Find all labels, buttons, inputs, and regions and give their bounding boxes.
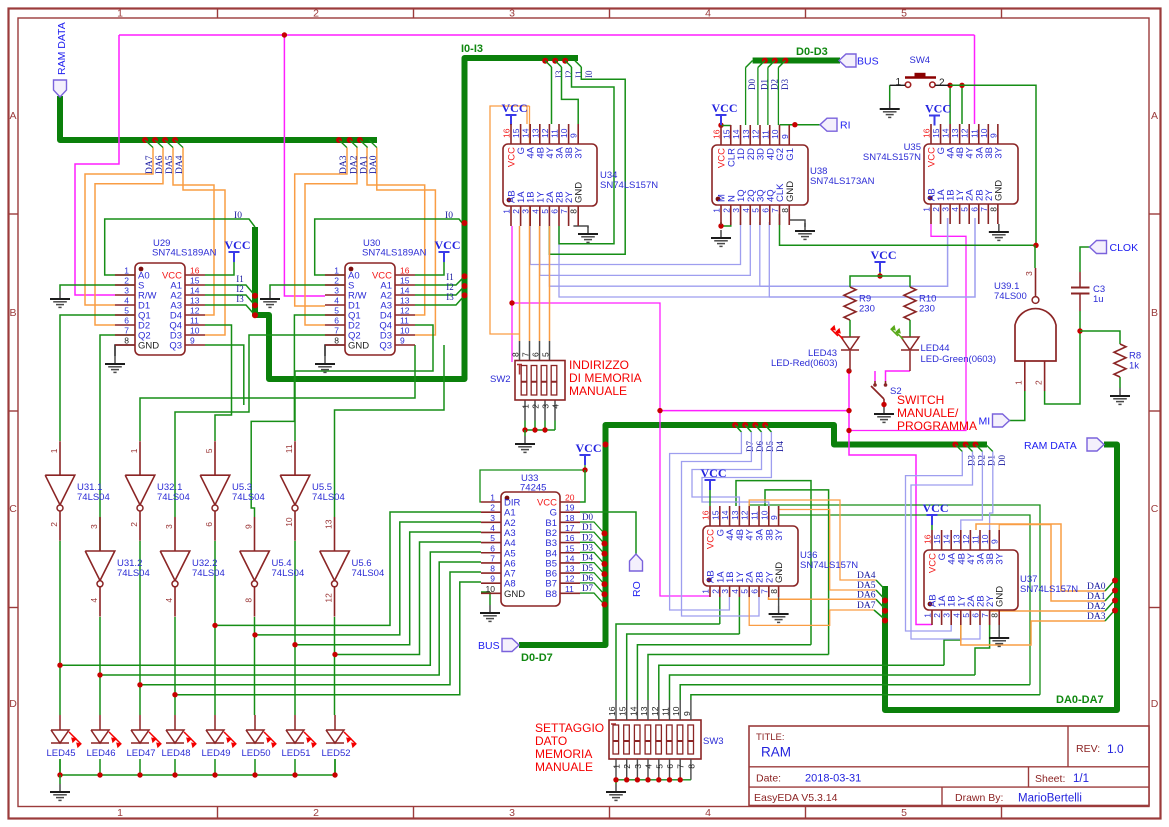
svg-text:13: 13 <box>324 519 334 529</box>
svg-text:13: 13 <box>400 296 410 306</box>
svg-text:12: 12 <box>961 534 971 544</box>
svg-text:LED44: LED44 <box>921 343 950 354</box>
wire U33 B outputs to bus D0-D7 <box>580 442 609 608</box>
svg-text:GND: GND <box>993 180 1004 201</box>
wire orange SW2 columns <box>520 226 550 361</box>
svg-text:DATO: DATO <box>535 734 567 748</box>
svg-text:2: 2 <box>313 8 319 20</box>
svg-text:12: 12 <box>400 306 410 316</box>
svg-text:I2: I2 <box>446 282 454 292</box>
svg-text:5: 5 <box>740 589 750 594</box>
svg-text:6: 6 <box>971 613 981 618</box>
svg-text:LED48: LED48 <box>161 748 190 759</box>
pushbutton SW4 <box>890 55 950 89</box>
svg-text:MarioBertelli: MarioBertelli <box>1018 793 1082 805</box>
svg-text:MANUALE: MANUALE <box>535 760 593 774</box>
wire green D0-D3 taps to U38 <box>746 58 790 126</box>
svg-text:C: C <box>1151 503 1159 515</box>
svg-text:10: 10 <box>980 534 990 544</box>
svg-text:5: 5 <box>541 352 551 357</box>
svg-text:10: 10 <box>400 326 410 336</box>
svg-text:I3: I3 <box>554 70 564 78</box>
svg-text:D1: D1 <box>582 522 593 532</box>
svg-text:16: 16 <box>400 266 410 276</box>
svg-text:3Y: 3Y <box>995 552 1006 564</box>
svg-text:GND: GND <box>774 562 785 583</box>
net flag BUS lower <box>502 639 519 652</box>
svg-text:5: 5 <box>490 533 495 543</box>
svg-text:7: 7 <box>759 589 769 594</box>
svg-text:12: 12 <box>650 706 660 716</box>
svg-text:14: 14 <box>521 128 531 138</box>
LED LED49 <box>201 730 236 759</box>
svg-text:2: 2 <box>49 522 59 527</box>
switch S2 <box>871 381 902 407</box>
svg-text:3Y: 3Y <box>774 528 785 540</box>
svg-text:4: 4 <box>951 613 961 618</box>
svg-text:A: A <box>9 110 16 122</box>
LED LED46 <box>86 730 121 759</box>
svg-text:3: 3 <box>509 807 515 819</box>
svg-text:LED50: LED50 <box>241 748 270 759</box>
svg-text:DA7: DA7 <box>857 601 876 611</box>
svg-text:9: 9 <box>400 336 405 346</box>
svg-text:8: 8 <box>511 352 521 357</box>
svg-text:10: 10 <box>770 129 780 139</box>
svg-text:74LS04: 74LS04 <box>272 568 305 579</box>
inverter U5.5 74LS04 <box>280 441 345 541</box>
svg-text:D0: D0 <box>582 512 593 522</box>
svg-text:GND: GND <box>995 586 1006 607</box>
svg-text:16: 16 <box>712 129 722 139</box>
svg-text:VCC: VCC <box>435 238 461 252</box>
svg-text:4: 4 <box>730 589 740 594</box>
svg-text:74LS04: 74LS04 <box>312 492 345 503</box>
ground U29 S pin <box>59 291 61 299</box>
svg-text:3: 3 <box>633 764 643 769</box>
wire SW4 net <box>890 83 1039 248</box>
svg-text:10: 10 <box>559 128 569 138</box>
svg-text:5: 5 <box>654 764 664 769</box>
ground U33 pin10 <box>489 605 491 613</box>
svg-text:74LS04: 74LS04 <box>232 492 265 503</box>
wire green I0-I3 taps to U34 <box>542 58 625 255</box>
svg-text:3: 3 <box>1024 271 1034 276</box>
svg-text:13: 13 <box>190 296 200 306</box>
wire green U30 pin wires <box>140 211 468 517</box>
svg-text:8: 8 <box>769 589 779 594</box>
svg-text:I0: I0 <box>445 211 453 221</box>
svg-text:D3: D3 <box>582 542 593 552</box>
svg-text:VCC: VCC <box>925 102 951 116</box>
svg-text:7: 7 <box>521 352 531 357</box>
svg-text:3: 3 <box>521 209 531 214</box>
svg-text:C: C <box>9 503 17 515</box>
text SETTAGGIO DATO MEMORIA MANUALE <box>535 721 604 774</box>
svg-text:8: 8 <box>569 209 579 214</box>
svg-text:15: 15 <box>932 534 942 544</box>
svg-text:16: 16 <box>190 266 200 276</box>
svg-text:1: 1 <box>117 8 123 20</box>
svg-text:8: 8 <box>990 613 1000 618</box>
svg-text:3: 3 <box>720 589 730 594</box>
svg-text:12: 12 <box>565 574 575 584</box>
svg-text:MANUALE/: MANUALE/ <box>897 406 959 420</box>
ground U29 pin8 <box>105 345 135 372</box>
svg-text:MEMORIA: MEMORIA <box>535 747 592 761</box>
net flag RAM DATA right <box>1087 438 1104 451</box>
svg-text:D7: D7 <box>745 441 755 452</box>
svg-text:D5: D5 <box>582 563 593 573</box>
svg-text:D2: D2 <box>977 455 987 466</box>
svg-text:D5: D5 <box>765 441 775 452</box>
svg-text:B: B <box>9 307 16 319</box>
svg-text:DA0: DA0 <box>1087 582 1106 592</box>
text INDIRIZZO DI MEMORIA MANUALE <box>569 358 642 398</box>
svg-text:15: 15 <box>618 706 628 716</box>
svg-text:11: 11 <box>750 511 760 520</box>
svg-text:INDIRIZZO: INDIRIZZO <box>569 358 629 372</box>
svg-text:GND: GND <box>574 182 585 203</box>
svg-text:230: 230 <box>919 304 935 315</box>
bus RAM DATA top-left <box>60 96 377 140</box>
svg-text:I0-I3: I0-I3 <box>461 43 483 55</box>
svg-text:1.0: 1.0 <box>1107 742 1124 756</box>
resistor R8 1k <box>1114 344 1141 377</box>
LED LED44 green <box>891 326 996 365</box>
svg-text:PROGRAMMA: PROGRAMMA <box>897 419 977 433</box>
IC U34 SN74LS157N <box>502 124 659 226</box>
svg-text:13: 13 <box>950 128 960 138</box>
svg-text:16: 16 <box>502 128 512 138</box>
svg-text:B: B <box>1151 307 1158 319</box>
svg-text:D2: D2 <box>582 532 593 542</box>
svg-text:D4: D4 <box>775 441 785 452</box>
inverter U5.3 74LS04 <box>200 441 265 541</box>
svg-text:LED45: LED45 <box>46 748 75 759</box>
svg-text:A: A <box>1151 110 1158 122</box>
svg-text:4: 4 <box>644 764 654 769</box>
svg-text:12: 12 <box>190 306 200 316</box>
svg-text:13: 13 <box>565 564 575 574</box>
svg-text:1: 1 <box>490 493 495 503</box>
net flag MI <box>993 414 1010 427</box>
svg-text:1: 1 <box>923 613 933 618</box>
svg-text:D0: D0 <box>997 455 1007 466</box>
svg-text:LED51: LED51 <box>281 748 310 759</box>
svg-text:20: 20 <box>565 493 575 503</box>
svg-text:8: 8 <box>780 208 790 213</box>
svg-text:7: 7 <box>980 613 990 618</box>
LED LED48 <box>161 730 196 759</box>
wire VCC to R9 R10 <box>850 272 910 337</box>
svg-text:RAM: RAM <box>761 745 791 760</box>
svg-text:1: 1 <box>521 404 531 409</box>
svg-text:74LS04: 74LS04 <box>117 568 150 579</box>
svg-text:1: 1 <box>129 448 139 453</box>
svg-text:9: 9 <box>244 524 254 529</box>
svg-text:3Y: 3Y <box>574 146 585 158</box>
svg-text:RO: RO <box>631 581 643 597</box>
svg-text:10: 10 <box>284 517 294 527</box>
svg-text:LED49: LED49 <box>201 748 230 759</box>
svg-text:6: 6 <box>550 209 560 214</box>
svg-text:RAM DATA: RAM DATA <box>56 22 68 75</box>
svg-text:5: 5 <box>901 8 907 20</box>
svg-text:D4: D4 <box>582 553 593 563</box>
svg-text:15: 15 <box>190 276 200 286</box>
svg-text:I2: I2 <box>236 284 244 294</box>
svg-text:I0: I0 <box>234 211 242 221</box>
wire green LED bottom rail <box>57 759 337 784</box>
svg-text:VCC: VCC <box>576 441 602 455</box>
ground R8 <box>1119 388 1121 396</box>
LED LED47 <box>126 730 161 759</box>
svg-text:18: 18 <box>565 513 575 523</box>
svg-text:14: 14 <box>400 286 410 296</box>
svg-text:3: 3 <box>164 524 174 529</box>
resistor R9 230 <box>844 287 875 320</box>
LED LED52 <box>321 730 356 759</box>
svg-text:3: 3 <box>509 8 515 20</box>
wire orange DA4-DA7 from U36 <box>749 500 888 625</box>
svg-text:4: 4 <box>334 296 339 306</box>
svg-text:13: 13 <box>639 706 649 716</box>
svg-text:DA3: DA3 <box>339 155 349 174</box>
svg-text:6: 6 <box>124 316 129 326</box>
ground LED rail <box>59 784 61 792</box>
svg-text:LED47: LED47 <box>126 748 155 759</box>
svg-text:5: 5 <box>334 306 339 316</box>
inverter U31.2 74LS04 <box>85 517 150 617</box>
LED LED43 red <box>771 326 859 369</box>
svg-text:8: 8 <box>124 336 129 346</box>
svg-text:9: 9 <box>569 133 579 138</box>
svg-text:RAM DATA: RAM DATA <box>1024 440 1077 452</box>
svg-text:GND: GND <box>138 341 159 352</box>
svg-text:VCC: VCC <box>712 101 738 115</box>
wire magenta R/W select net <box>75 32 975 624</box>
wire U38 area <box>718 122 1036 245</box>
svg-text:D6: D6 <box>755 441 765 452</box>
wire blue D3-D0 taps to U37 <box>906 442 1007 640</box>
svg-text:74LS04: 74LS04 <box>352 568 385 579</box>
svg-text:3: 3 <box>334 286 339 296</box>
svg-text:SW4: SW4 <box>910 55 931 66</box>
svg-text:9: 9 <box>769 515 779 520</box>
svg-text:D3: D3 <box>966 455 976 466</box>
svg-text:LED46: LED46 <box>86 748 115 759</box>
svg-text:5: 5 <box>960 207 970 212</box>
svg-text:2: 2 <box>932 613 942 618</box>
svg-text:VCC: VCC <box>701 466 727 480</box>
svg-text:TITLE:: TITLE: <box>756 732 785 743</box>
svg-text:11: 11 <box>550 129 560 138</box>
svg-text:3: 3 <box>941 207 951 212</box>
wire NAND / clock RC <box>1010 245 1121 420</box>
SW3 pin numbers and stubs <box>615 700 617 720</box>
svg-text:1: 1 <box>712 208 722 213</box>
svg-text:7: 7 <box>124 326 129 336</box>
svg-text:4: 4 <box>551 404 561 409</box>
svg-text:Q3: Q3 <box>379 341 392 352</box>
svg-text:14: 14 <box>628 706 638 716</box>
svg-text:I3: I3 <box>446 292 454 302</box>
svg-text:D0-D7: D0-D7 <box>521 652 553 664</box>
svg-text:3: 3 <box>490 513 495 523</box>
svg-text:7: 7 <box>676 764 686 769</box>
ground SW3 <box>606 780 626 800</box>
svg-text:2: 2 <box>511 209 521 214</box>
capacitor C3 1u <box>1071 272 1105 311</box>
svg-text:8: 8 <box>244 598 254 603</box>
bus D0-D7 center <box>519 425 987 645</box>
svg-text:8: 8 <box>490 564 495 574</box>
svg-text:MI: MI <box>979 416 991 428</box>
svg-text:12: 12 <box>740 510 750 520</box>
svg-text:VCC: VCC <box>923 501 949 515</box>
svg-text:16: 16 <box>607 706 617 716</box>
svg-text:15: 15 <box>931 128 941 138</box>
net flag RI <box>820 118 837 131</box>
svg-text:12: 12 <box>540 128 550 138</box>
inverter U32.2 74LS04 <box>160 517 225 617</box>
bus taps DA7-DA4 <box>142 137 185 174</box>
svg-text:11: 11 <box>661 707 671 716</box>
svg-text:BUS: BUS <box>478 640 500 652</box>
svg-text:2: 2 <box>124 276 129 286</box>
svg-text:DA6: DA6 <box>857 590 876 600</box>
svg-text:2: 2 <box>931 207 941 212</box>
svg-text:2: 2 <box>129 522 139 527</box>
svg-text:10: 10 <box>671 706 681 716</box>
svg-text:D1: D1 <box>986 455 996 466</box>
wire SW2 bottom to ground <box>522 400 555 436</box>
svg-text:12: 12 <box>324 593 334 603</box>
svg-text:D3: D3 <box>780 79 790 90</box>
svg-text:DA5: DA5 <box>165 155 175 174</box>
svg-text:2: 2 <box>531 404 541 409</box>
inverter U5.4 74LS04 <box>240 517 305 617</box>
svg-text:VCC: VCC <box>871 248 897 262</box>
ground U38 M/N pins <box>720 230 722 238</box>
svg-text:14: 14 <box>565 553 575 563</box>
svg-text:5: 5 <box>204 448 214 453</box>
svg-text:Date:: Date: <box>756 773 781 785</box>
svg-text:SN74LS173AN: SN74LS173AN <box>810 176 875 187</box>
wire blue U38 Q outputs nest <box>530 218 975 297</box>
ground SW2 <box>524 436 526 444</box>
svg-text:DA6: DA6 <box>155 155 165 174</box>
svg-text:5: 5 <box>961 613 971 618</box>
svg-text:I2: I2 <box>564 71 574 79</box>
svg-text:1u: 1u <box>1093 294 1104 305</box>
svg-text:4: 4 <box>530 209 540 214</box>
svg-text:DA2: DA2 <box>1087 602 1106 612</box>
svg-text:SW3: SW3 <box>703 736 724 747</box>
svg-text:2: 2 <box>1034 380 1044 385</box>
svg-text:15: 15 <box>721 129 731 139</box>
svg-text:EasyEDA V5.3.14: EasyEDA V5.3.14 <box>754 792 838 804</box>
svg-text:2: 2 <box>721 208 731 213</box>
IC U30 SN74LS189AN <box>325 238 427 355</box>
wire orange DA0-DA3 to right bus <box>961 524 1118 645</box>
svg-text:13: 13 <box>730 510 740 520</box>
wire U37 area VCC <box>931 524 933 530</box>
svg-text:4: 4 <box>705 8 711 20</box>
svg-text:I1: I1 <box>574 71 584 79</box>
svg-text:1: 1 <box>117 807 123 819</box>
LED LED51 <box>281 730 316 759</box>
svg-text:15: 15 <box>511 128 521 138</box>
svg-text:2: 2 <box>313 807 319 819</box>
svg-text:REV:: REV: <box>1076 743 1100 755</box>
wire green inverter columns to LEDs <box>60 541 335 715</box>
inverter U31.1 74LS04 <box>45 441 110 541</box>
bus taps DA3-DA0 <box>336 137 379 174</box>
svg-text:DA2: DA2 <box>349 155 359 174</box>
svg-text:16: 16 <box>923 534 933 544</box>
wire orange DA3-DA0 to U30 <box>295 148 436 336</box>
svg-text:DA3: DA3 <box>1087 612 1106 622</box>
wire blue D7-D4 taps to U36/U37 <box>670 422 786 616</box>
svg-text:17: 17 <box>565 523 575 533</box>
svg-text:9: 9 <box>190 336 195 346</box>
svg-text:1: 1 <box>334 266 339 276</box>
ground U36 pin8 <box>778 606 780 614</box>
wire green U29 pin wires <box>60 211 258 551</box>
svg-text:11: 11 <box>284 444 294 453</box>
svg-text:6: 6 <box>531 352 541 357</box>
svg-text:3: 3 <box>942 613 952 618</box>
svg-text:74245: 74245 <box>520 483 546 494</box>
svg-text:8: 8 <box>988 207 998 212</box>
svg-text:14: 14 <box>941 128 951 138</box>
resistor R10 230 <box>904 287 936 320</box>
svg-text:16: 16 <box>565 533 575 543</box>
svg-text:14: 14 <box>942 534 952 544</box>
svg-text:VCC: VCC <box>225 238 251 252</box>
bus D0-D3 <box>753 58 840 64</box>
svg-text:DA4: DA4 <box>175 155 185 174</box>
svg-text:1: 1 <box>895 77 901 88</box>
wire U36 GND stem <box>778 597 780 606</box>
svg-text:D: D <box>1151 698 1159 710</box>
svg-text:LED-Red(0603): LED-Red(0603) <box>771 358 838 369</box>
svg-text:10: 10 <box>190 326 200 336</box>
svg-text:9: 9 <box>682 711 692 716</box>
svg-text:1: 1 <box>701 589 711 594</box>
wire U36 area VCC <box>709 489 711 506</box>
svg-text:6: 6 <box>334 316 339 326</box>
svg-text:6: 6 <box>490 543 495 553</box>
svg-text:19: 19 <box>565 503 575 513</box>
svg-text:BUS: BUS <box>857 56 879 68</box>
svg-text:6: 6 <box>760 208 770 213</box>
LED LED50 <box>241 730 276 759</box>
svg-text:1: 1 <box>124 266 129 276</box>
svg-text:6: 6 <box>665 764 675 769</box>
svg-text:2018-03-31: 2018-03-31 <box>805 773 861 785</box>
net flag BUS top <box>839 54 856 67</box>
svg-text:1: 1 <box>502 209 512 214</box>
svg-text:4: 4 <box>741 208 751 213</box>
svg-text:10: 10 <box>979 128 989 138</box>
svg-text:4: 4 <box>164 598 174 603</box>
LED LED45 <box>46 730 81 759</box>
svg-text:11: 11 <box>969 129 979 138</box>
svg-text:D6: D6 <box>582 573 593 583</box>
